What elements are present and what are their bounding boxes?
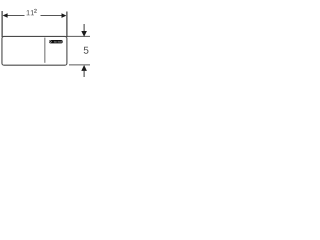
extension line right top	[68, 35, 91, 37]
logo bar Geberit	[49, 40, 63, 43]
arrow left	[3, 13, 8, 18]
dimension line top right segment	[41, 15, 63, 17]
dimension text 11 : digit 1 (first)	[27, 10, 30, 15]
divider line	[44, 38, 46, 63]
arrow down	[81, 31, 87, 37]
arrow right	[62, 13, 67, 18]
extension line right bottom	[69, 64, 90, 66]
logo ring	[50, 41, 52, 43]
extension tick left	[1, 11, 3, 37]
dimension line top left segment	[7, 15, 24, 17]
vertical dim line bottom stub	[83, 71, 85, 77]
logo text marks	[54, 41, 62, 43]
arrow up	[81, 65, 87, 71]
dimension text 5	[84, 47, 89, 54]
extension tick right	[66, 12, 68, 38]
dimension text superscript 2	[34, 9, 36, 13]
dimension text 11 : digit 1 (second)	[31, 10, 34, 15]
plate outline	[2, 36, 67, 65]
vertical dim line top stub	[83, 24, 85, 32]
